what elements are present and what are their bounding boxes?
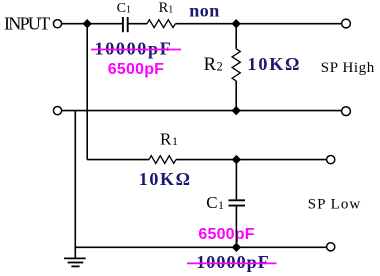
terminal SP Low plus <box>327 156 335 164</box>
wire C1 lower bottom lead <box>235 206 237 247</box>
svg-text:SP High: SP High <box>321 60 375 76</box>
wire R2 lower lead <box>235 81 237 111</box>
strikethrough line lower <box>187 262 277 264</box>
node junction A <box>83 19 92 28</box>
terminal SP Low minus <box>327 243 335 251</box>
wire top rail right segment <box>175 23 341 25</box>
terminal SP High plus <box>342 19 351 28</box>
resistor R1 top (zigzag) <box>147 20 175 28</box>
wire top rail left segment <box>62 23 122 25</box>
wire lower branch right segment <box>176 159 326 161</box>
mid-left terminal <box>53 107 61 115</box>
svg-text:10000pF: 10000pF <box>196 252 270 272</box>
wire bottom rail <box>75 246 326 248</box>
resistor R1 lower (zigzag) <box>149 156 176 164</box>
terminal SP High minus <box>342 107 351 116</box>
svg-text:10KΩ: 10KΩ <box>139 169 192 189</box>
wire vertical ground branch <box>74 111 76 259</box>
wire lower branch left segment <box>87 159 149 161</box>
node junction B <box>232 19 241 28</box>
svg-text:6500pF: 6500pF <box>198 226 254 243</box>
wire mid rail <box>62 110 342 112</box>
svg-text:10000pF: 10000pF <box>95 38 173 58</box>
capacitor C1 lower (plates) <box>229 200 246 205</box>
wire C1 lower upper lead <box>235 160 237 200</box>
node junction D <box>232 155 241 164</box>
svg-text:INPUT: INPUT <box>4 14 50 34</box>
svg-text:6500pF: 6500pF <box>108 61 164 78</box>
svg-text:10KΩ: 10KΩ <box>248 54 302 74</box>
resistor R2 (vertical zigzag) <box>232 49 240 81</box>
wire vertical from node A <box>86 24 88 160</box>
ground <box>64 258 86 266</box>
input terminal <box>53 20 61 28</box>
wire R2 upper lead <box>235 24 237 49</box>
svg-text:non: non <box>189 1 220 21</box>
svg-text:SP Low: SP Low <box>308 197 361 213</box>
wire between C1 and R1 <box>129 23 147 25</box>
strikethrough line top <box>91 49 181 51</box>
node junction C <box>232 106 241 115</box>
capacitor C1 top (plates) <box>123 17 128 32</box>
node junction E <box>232 243 241 252</box>
